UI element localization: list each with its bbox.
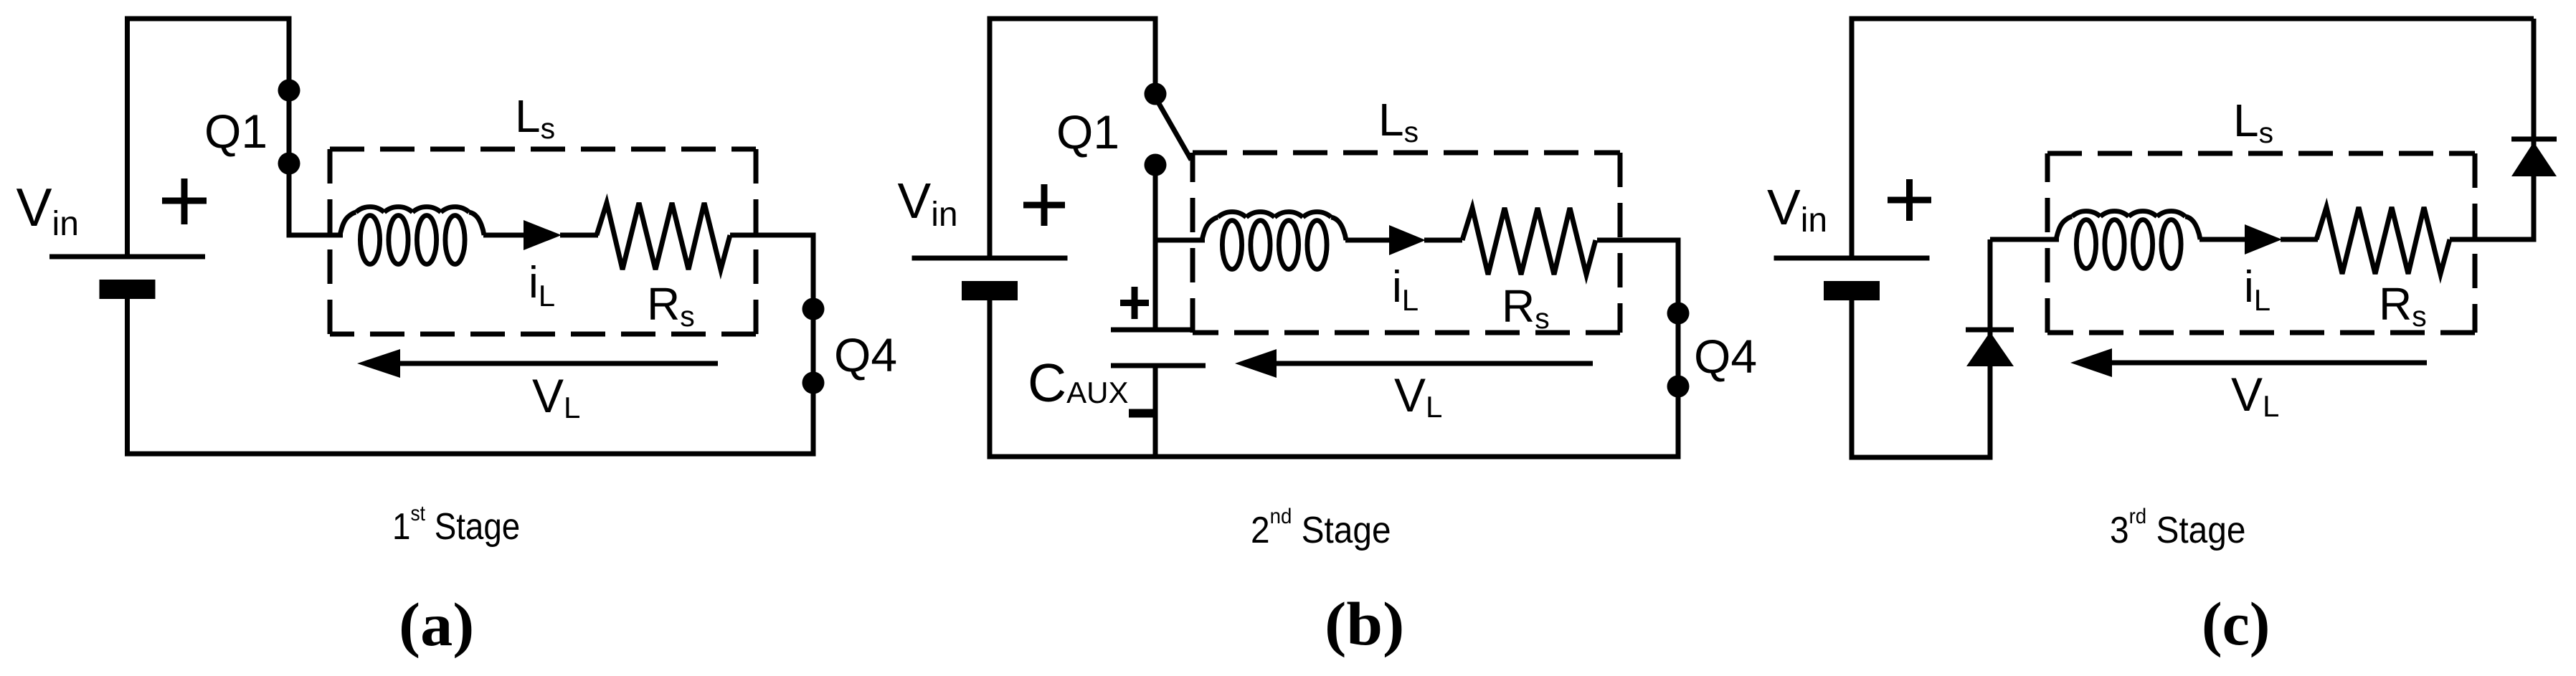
dashed box Ls (b) [1193,153,1620,333]
wire resistor to right riser (c) [2450,237,2537,242]
capacitor minus sign (b) [1129,409,1153,418]
battery Vin bottom bar (a) [100,280,156,299]
wire resistor to right corner (a) [730,233,816,238]
battery Vin top plate (b) [912,256,1068,261]
wire coil to arrow (b) [1345,238,1391,243]
svg-text:Ls: Ls [1378,94,1419,148]
svg-text:1st Stage: 1st Stage [392,500,520,547]
svg-text:Rs: Rs [647,278,695,333]
battery Vin top plate (c) [1774,256,1930,261]
wire coil to arrow (c) [2199,237,2246,242]
battery Vin bottom bar (b) [962,281,1018,300]
wire bottom rail (c) [1850,455,1993,460]
wire right riser (b) [1676,240,1681,457]
svg-text:Rs: Rs [2379,278,2427,333]
dashed box Ls (c) [2047,153,2475,333]
node dot Q1 top (b) [1145,83,1167,105]
svg-text:Rs: Rs [1502,280,1550,335]
diode D2 cathode bar (c) [2511,137,2557,142]
wire right riser (a) [811,235,816,454]
VL arrowhead (b) [1235,349,1277,378]
svg-text:VL: VL [2231,368,2279,423]
resistor Rs (c) [2316,207,2450,274]
node dot Q4 top (a) [802,298,825,320]
wire arrow to resistor (a) [560,233,598,238]
node dot Q1 bottom (a) [278,153,300,175]
svg-text:3rd Stage: 3rd Stage [2110,505,2245,551]
current arrow iL (a) [524,220,562,250]
caption 1st Stage (a) [392,500,520,547]
wire top-left loop (b) [990,19,1155,256]
diode D1 triangle (c) [1966,332,2014,366]
wire from Q1 to inductor (a) [289,163,343,235]
svg-text:iL: iL [1392,262,1419,317]
switch blade Q1 open (b) [1157,101,1191,160]
battery Vin top plate (a) [49,254,205,260]
wire battery to bottom rail (c) [1850,282,1855,457]
svg-text:(c): (c) [2202,589,2270,658]
wire coil to arrow (a) [483,233,525,238]
wire top rail (c) [1852,16,2534,22]
svg-text:iL: iL [2244,262,2270,317]
battery plus sign (c) [1888,179,1931,221]
current arrow iL (c) [2245,224,2282,254]
node dot Q4 bottom (b) [1667,376,1690,398]
caption (a) [399,591,474,660]
wire arrow to resistor (c) [2281,237,2318,242]
VL arrow line (c) [2111,361,2427,366]
svg-text:Q1: Q1 [204,105,267,158]
svg-text:Q4: Q4 [1694,330,1757,383]
battery Vin bottom bar (c) [1824,281,1880,300]
wire right riser (c) [2532,19,2537,239]
wire left drop to battery (c) [1850,16,1855,259]
svg-text:Q4: Q4 [834,328,897,381]
resistor Rs (b) [1462,208,1596,275]
svg-text:CAUX: CAUX [1028,353,1129,413]
wire Q1 lower contact down to capacitor (b) [1153,165,1158,330]
battery plus sign (a) [162,178,207,224]
wire Q1 closed switch segment (a) [287,90,292,163]
node dot Q4 bottom (a) [802,372,825,394]
VL arrowhead (a) [357,349,400,378]
VL arrow line (b) [1275,361,1593,366]
svg-text:iL: iL [529,258,555,313]
svg-text:Vin: Vin [16,177,79,243]
inductor coil Ls (b) [1202,211,1346,269]
wire arrow to resistor (b) [1424,238,1462,243]
diode D1 cathode bar (c) [1966,328,2014,333]
resistor Rs (a) [597,203,730,270]
wire bottom rail (b) [988,454,1681,460]
wire resistor to right corner (b) [1597,238,1681,243]
battery plus sign (b) [1023,184,1065,226]
wire battery to bottom rail (b) [988,282,993,457]
capacitor plus sign (b) [1120,287,1149,319]
wire capacitor to bottom rail (b) [1153,366,1158,457]
caption 3rd Stage (c) [2110,505,2245,551]
wire junction to inductor (b) [1155,238,1205,243]
node dot Q4 top (b) [1667,303,1690,325]
dashed box Ls (a) [330,149,756,334]
svg-text:Vin: Vin [898,173,958,234]
wire to inductor (c) [1990,237,2059,242]
svg-text:VL: VL [532,369,580,424]
svg-text:(b): (b) [1325,590,1404,658]
svg-text:2nd Stage: 2nd Stage [1251,505,1391,551]
svg-text:Vin: Vin [1767,179,1827,239]
caption (b) [1325,590,1404,658]
inductor coil Ls (c) [2056,211,2200,268]
svg-text:VL: VL [1394,368,1442,424]
inductor coil Ls (a) [340,206,484,264]
node dot Q1 bottom (b) [1145,154,1167,176]
svg-text:Ls: Ls [2233,95,2273,149]
current arrow iL (b) [1389,225,1426,255]
wire bottom rail (a) [125,452,816,457]
diode D2 triangle (c) [2511,142,2557,176]
svg-text:Ls: Ls [515,90,555,145]
wire battery to bottom rail (a) [125,281,130,454]
svg-text:(a): (a) [399,591,474,660]
capacitor CAUX top plate (b) [1111,328,1193,333]
wire top-left loop (a) [128,19,290,254]
capacitor CAUX bottom plate (b) [1111,363,1206,368]
VL arrowhead (c) [2070,348,2112,377]
wire diode riser left (c) [1988,239,1993,457]
node dot Q1 top (a) [278,80,300,102]
svg-text:Q1: Q1 [1056,105,1119,158]
VL arrow line (a) [399,361,718,366]
caption 2nd Stage (b) [1251,505,1391,551]
